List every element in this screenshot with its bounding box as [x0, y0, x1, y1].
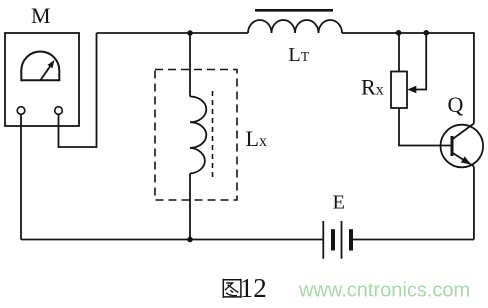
svg-text:Q: Q [448, 92, 464, 117]
meter terminal left [17, 107, 25, 115]
wire: right terminal down, right, up to top rail [59, 33, 97, 147]
potentiometer Rx wiper [407, 33, 426, 93]
wire: top rail left segment [97, 32, 249, 34]
wire: down to Rx [398, 33, 400, 72]
battery E plate 2 (short thick) [331, 229, 335, 250]
meter needle [41, 60, 55, 80]
svg-text:M: M [31, 3, 51, 28]
caption 图 glyph [223, 279, 241, 298]
node: junction on bottom rail [187, 237, 193, 243]
inductor Lx [190, 97, 206, 174]
transistor Q base bar [451, 136, 454, 156]
svg-text:LT: LT [288, 44, 310, 66]
potentiometer Rx body [391, 72, 407, 109]
svg-text:Rx: Rx [361, 75, 384, 100]
transistor Q emitter with arrow [452, 153, 474, 240]
meter M box [5, 33, 79, 126]
wire: bottom rail left of battery [21, 239, 322, 241]
meter terminal right [55, 107, 63, 115]
wire: Rx bottom to transistor base [399, 108, 452, 146]
wire: left terminal down to bottom rail [20, 114, 22, 239]
wire: bottom rail right of battery [353, 239, 474, 241]
svg-text:12: 12 [240, 273, 267, 303]
Lx adjustable core (dashed line) [212, 91, 214, 180]
battery E plate 3 (long) [341, 221, 343, 259]
svg-text:Lx: Lx [246, 126, 267, 151]
battery E plate 4 (short thick) [349, 229, 353, 250]
transistor Q collector [452, 124, 474, 140]
wire: Lx down to bottom rail [189, 174, 191, 240]
battery E plate 1 (long) [322, 221, 324, 259]
node: junction on top rail [187, 30, 193, 36]
Lx shield box (dashed) [155, 70, 237, 201]
svg-text:www.cntronics.com: www.cntronics.com [298, 280, 470, 302]
svg-text:E: E [333, 191, 346, 213]
transistor Q body circle [441, 125, 484, 168]
LT core bar [255, 9, 333, 12]
node: junction at Rx top [396, 30, 402, 36]
wire: junction down to Lx [189, 33, 191, 97]
inductor LT [248, 20, 342, 33]
node: junction at wiper top [423, 30, 429, 36]
wire: top rail right segment and right drop to collector [342, 33, 474, 124]
meter gauge [21, 52, 59, 81]
